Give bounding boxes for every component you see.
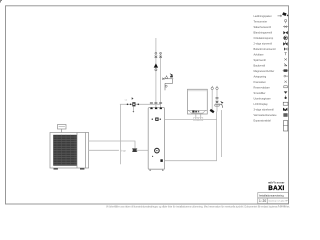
svg-text:Installationsanvisning: Installationsanvisning bbox=[259, 194, 284, 198]
svg-text:Utomhusgivare: Utomhusgivare bbox=[254, 96, 272, 100]
svg-text:3-vägs växelventil: 3-vägs växelventil bbox=[254, 107, 275, 111]
svg-text:Backventil: Backventil bbox=[254, 63, 266, 67]
svg-text:Magnetventil+filter: Magnetventil+filter bbox=[254, 69, 275, 73]
svg-text:Boilerkit shuntventil: Boilerkit shuntventil bbox=[254, 47, 276, 51]
svg-text:1: 20: 1: 20 bbox=[259, 199, 266, 203]
svg-text:rörprincip sch.plan HP: rörprincip sch.plan HP bbox=[268, 201, 288, 203]
svg-text:Laddningspaket: Laddningspaket bbox=[254, 14, 272, 18]
svg-text:Termometer: Termometer bbox=[254, 19, 268, 23]
svg-text:Cirkulationspump: Cirkulationspump bbox=[254, 36, 274, 40]
svg-text:Spärrventil: Spärrventil bbox=[254, 58, 267, 62]
svg-text:mih*lrxoner: mih*lrxoner bbox=[268, 181, 285, 184]
svg-text:t.v.p: t.v.p bbox=[121, 149, 126, 152]
svg-text:Säkerhetsventil: Säkerhetsventil bbox=[254, 25, 272, 29]
svg-text:Kranvatten: Kranvatten bbox=[254, 80, 267, 84]
svg-text:2-vägs styrventil: 2-vägs styrventil bbox=[254, 41, 273, 45]
svg-text:LCD Display: LCD Display bbox=[254, 102, 269, 106]
svg-text:Reservväxlare: Reservväxlare bbox=[254, 85, 271, 89]
svg-text:Smutsfilter: Smutsfilter bbox=[254, 91, 266, 95]
svg-text:Avluftare: Avluftare bbox=[254, 52, 265, 56]
svg-text:BAXI: BAXI bbox=[268, 185, 284, 192]
svg-text:Expansionskärl: Expansionskärl bbox=[254, 118, 272, 122]
svg-text:Blandningsventil: Blandningsventil bbox=[254, 30, 273, 34]
svg-text:Varmvattenberedare: Varmvattenberedare bbox=[254, 113, 278, 117]
svg-text:Vi förbehåller oss rätten till: Vi förbehåller oss rätten till konstrukt… bbox=[106, 206, 290, 209]
svg-text:Avtappning: Avtappning bbox=[254, 74, 267, 78]
